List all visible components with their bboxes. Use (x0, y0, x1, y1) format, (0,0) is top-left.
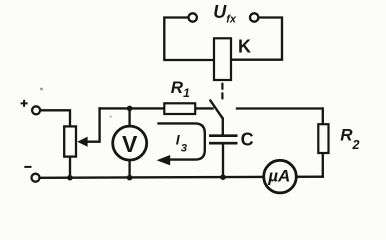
wire Ufx right terminal to relay right pin (231, 18, 282, 60)
svg-text:R1: R1 (171, 78, 190, 100)
junction node top rail / voltmeter (127, 106, 133, 112)
wire wiper riser (85, 108, 100, 141)
microammeter circle (264, 160, 297, 193)
potentiometer wiper arrowhead (77, 137, 87, 147)
switch blade (open contact) (210, 100, 223, 118)
capacitor C bottom plate (209, 142, 238, 145)
svg-text:R2: R2 (340, 126, 359, 152)
resistor R2 body (318, 124, 328, 153)
current loop I3 (157, 123, 205, 159)
relay K coil (214, 38, 231, 80)
junction node bottom rail / potentiometer (67, 175, 73, 181)
terminal + circle (32, 106, 40, 114)
potentiometer body (64, 126, 76, 156)
wire top rail left segment (wiper node to switch left contact) (100, 107, 213, 109)
svg-text:V: V (122, 131, 138, 157)
terminal − circle (32, 174, 40, 182)
capacitor C top plate (209, 134, 238, 137)
plus sign (21, 100, 28, 107)
dashed actuator link from relay to switch (221, 83, 223, 101)
svg-text:Ufx: Ufx (213, 2, 237, 25)
wire voltmeter branch (128, 108, 130, 177)
voltmeter V circle (113, 126, 147, 160)
wire top rail right segment (switch right contact to R2 corner) (237, 107, 323, 109)
wire bottom rail (40, 177, 323, 178)
wire plus terminal to potentiometer top (40, 110, 70, 126)
current loop arrowhead (157, 155, 171, 165)
wire Ufx left terminal to relay left pin (164, 18, 214, 61)
junction node bottom rail / capacitor (220, 174, 226, 180)
Ufx left terminal circle (189, 13, 197, 21)
wire R2 branch (322, 109, 324, 177)
svg-text:C: C (241, 130, 254, 150)
svg-text:µA: µA (267, 166, 290, 185)
wire potentiometer bottom to bottom rail (69, 156, 71, 177)
paper speck (110, 116, 112, 118)
resistor R1 body (164, 103, 195, 114)
junction node bottom rail / voltmeter (127, 175, 133, 181)
paper speck (40, 88, 43, 91)
wire capacitor branch (222, 119, 225, 178)
svg-text:K: K (238, 37, 251, 57)
Ufx right terminal circle (250, 13, 258, 21)
minus sign (24, 166, 31, 168)
svg-text:I3: I3 (176, 131, 187, 154)
